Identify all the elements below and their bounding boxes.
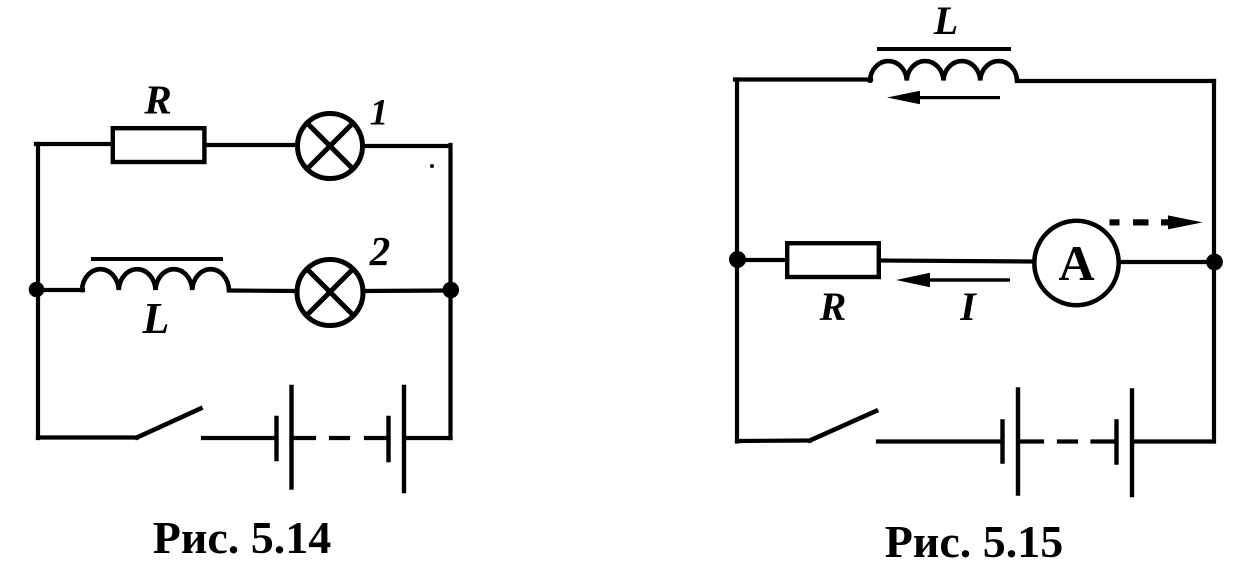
wire: top branch middle segment xyxy=(206,143,296,147)
lamp 2 cross xyxy=(307,269,353,315)
wire: bottom branch left segment xyxy=(38,435,137,439)
inductor L overline (Fig 5.14) xyxy=(93,257,221,261)
wire: battery dashed link stub 2 xyxy=(1093,439,1115,443)
wire: top branch left segment xyxy=(735,77,871,81)
resistor R (Fig 5.14) xyxy=(113,128,205,162)
arrow: dashed induced-current arrow (points right) xyxy=(1110,215,1203,229)
resistor R (Fig 5.15) xyxy=(787,243,879,277)
inductor L overline (Fig 5.15) xyxy=(879,47,1009,51)
wire: right rail xyxy=(1212,81,1216,442)
wire: middle branch between L and lamp 2 xyxy=(229,288,296,293)
node: right middle junction xyxy=(443,282,460,299)
wire: middle branch lead-in xyxy=(738,258,786,262)
svg-text:L: L xyxy=(933,0,958,43)
wire: battery dashed link stub 1 xyxy=(1020,439,1042,443)
wire: left rail xyxy=(735,80,739,442)
wire: middle branch right segment xyxy=(1120,260,1214,264)
lamp 1 cross xyxy=(307,123,353,169)
svg-text:R: R xyxy=(819,284,847,329)
wire: top branch left segment xyxy=(36,142,111,146)
arrow: induced current under inductor (points left) xyxy=(887,91,1000,105)
inductor L (Fig 5.14) xyxy=(82,269,229,290)
switch S (Fig 5.14) blade xyxy=(137,409,201,438)
battery cell 2 short plate (Fig 5.15) xyxy=(1114,422,1118,463)
switch S (Fig 5.15) blade xyxy=(810,411,876,441)
wire: bottom branch left segment xyxy=(737,438,810,443)
wire: bottom branch to battery xyxy=(878,439,1001,443)
wire: right rail xyxy=(448,145,452,438)
node: left middle junction xyxy=(29,282,45,298)
wire: bottom branch right segment xyxy=(1134,439,1213,443)
battery cell 1 short plate (Fig 5.15) xyxy=(1000,422,1004,462)
lamp 1 circle xyxy=(298,114,363,179)
wire: battery dashed link stub 2 xyxy=(366,436,387,440)
node: right middle junction (Fig 5.15) xyxy=(1206,254,1223,271)
wire: bottom branch right segment xyxy=(406,436,451,440)
wire: top branch right segment xyxy=(1017,79,1214,83)
wire: battery dashed link dash xyxy=(1059,439,1076,443)
svg-text:L: L xyxy=(142,294,170,343)
wire: middle branch between R and ammeter xyxy=(881,261,1033,262)
wire: middle branch right segment xyxy=(363,288,451,293)
svg-text:Рис. 5.14: Рис. 5.14 xyxy=(153,512,332,563)
inductor L (Fig 5.15) xyxy=(870,61,1017,80)
wire: bottom branch to battery xyxy=(203,436,275,440)
svg-text:A: A xyxy=(1058,235,1094,291)
wire: top branch right segment xyxy=(363,144,451,148)
svg-text:1: 1 xyxy=(370,93,389,134)
svg-text:2: 2 xyxy=(369,228,391,274)
battery cell 2 long plate (Fig 5.14) xyxy=(402,387,406,491)
battery cell 1 long plate (Fig 5.15) xyxy=(1016,390,1020,494)
wire: battery dashed link stub 1 xyxy=(293,436,314,440)
svg-text:Рис. 5.15: Рис. 5.15 xyxy=(885,516,1064,567)
svg-text:I: I xyxy=(959,284,977,329)
svg-text:R: R xyxy=(143,77,171,123)
battery cell 2 short plate (Fig 5.14) xyxy=(386,418,390,460)
battery cell 2 long plate (Fig 5.15) xyxy=(1130,391,1134,496)
battery cell 1 long plate (Fig 5.14) xyxy=(289,387,293,488)
arrow: current I (points left) xyxy=(896,273,1010,287)
wire: middle branch lead-in xyxy=(38,288,83,292)
lamp 2 circle xyxy=(297,260,363,326)
scan speck xyxy=(430,164,434,168)
ammeter A circle xyxy=(1034,221,1118,305)
wire: left rail xyxy=(36,144,40,438)
node: left middle junction (Fig 5.15) xyxy=(729,251,746,268)
battery cell 1 short plate (Fig 5.14) xyxy=(274,418,278,459)
wire: battery dashed link dash xyxy=(331,436,348,440)
